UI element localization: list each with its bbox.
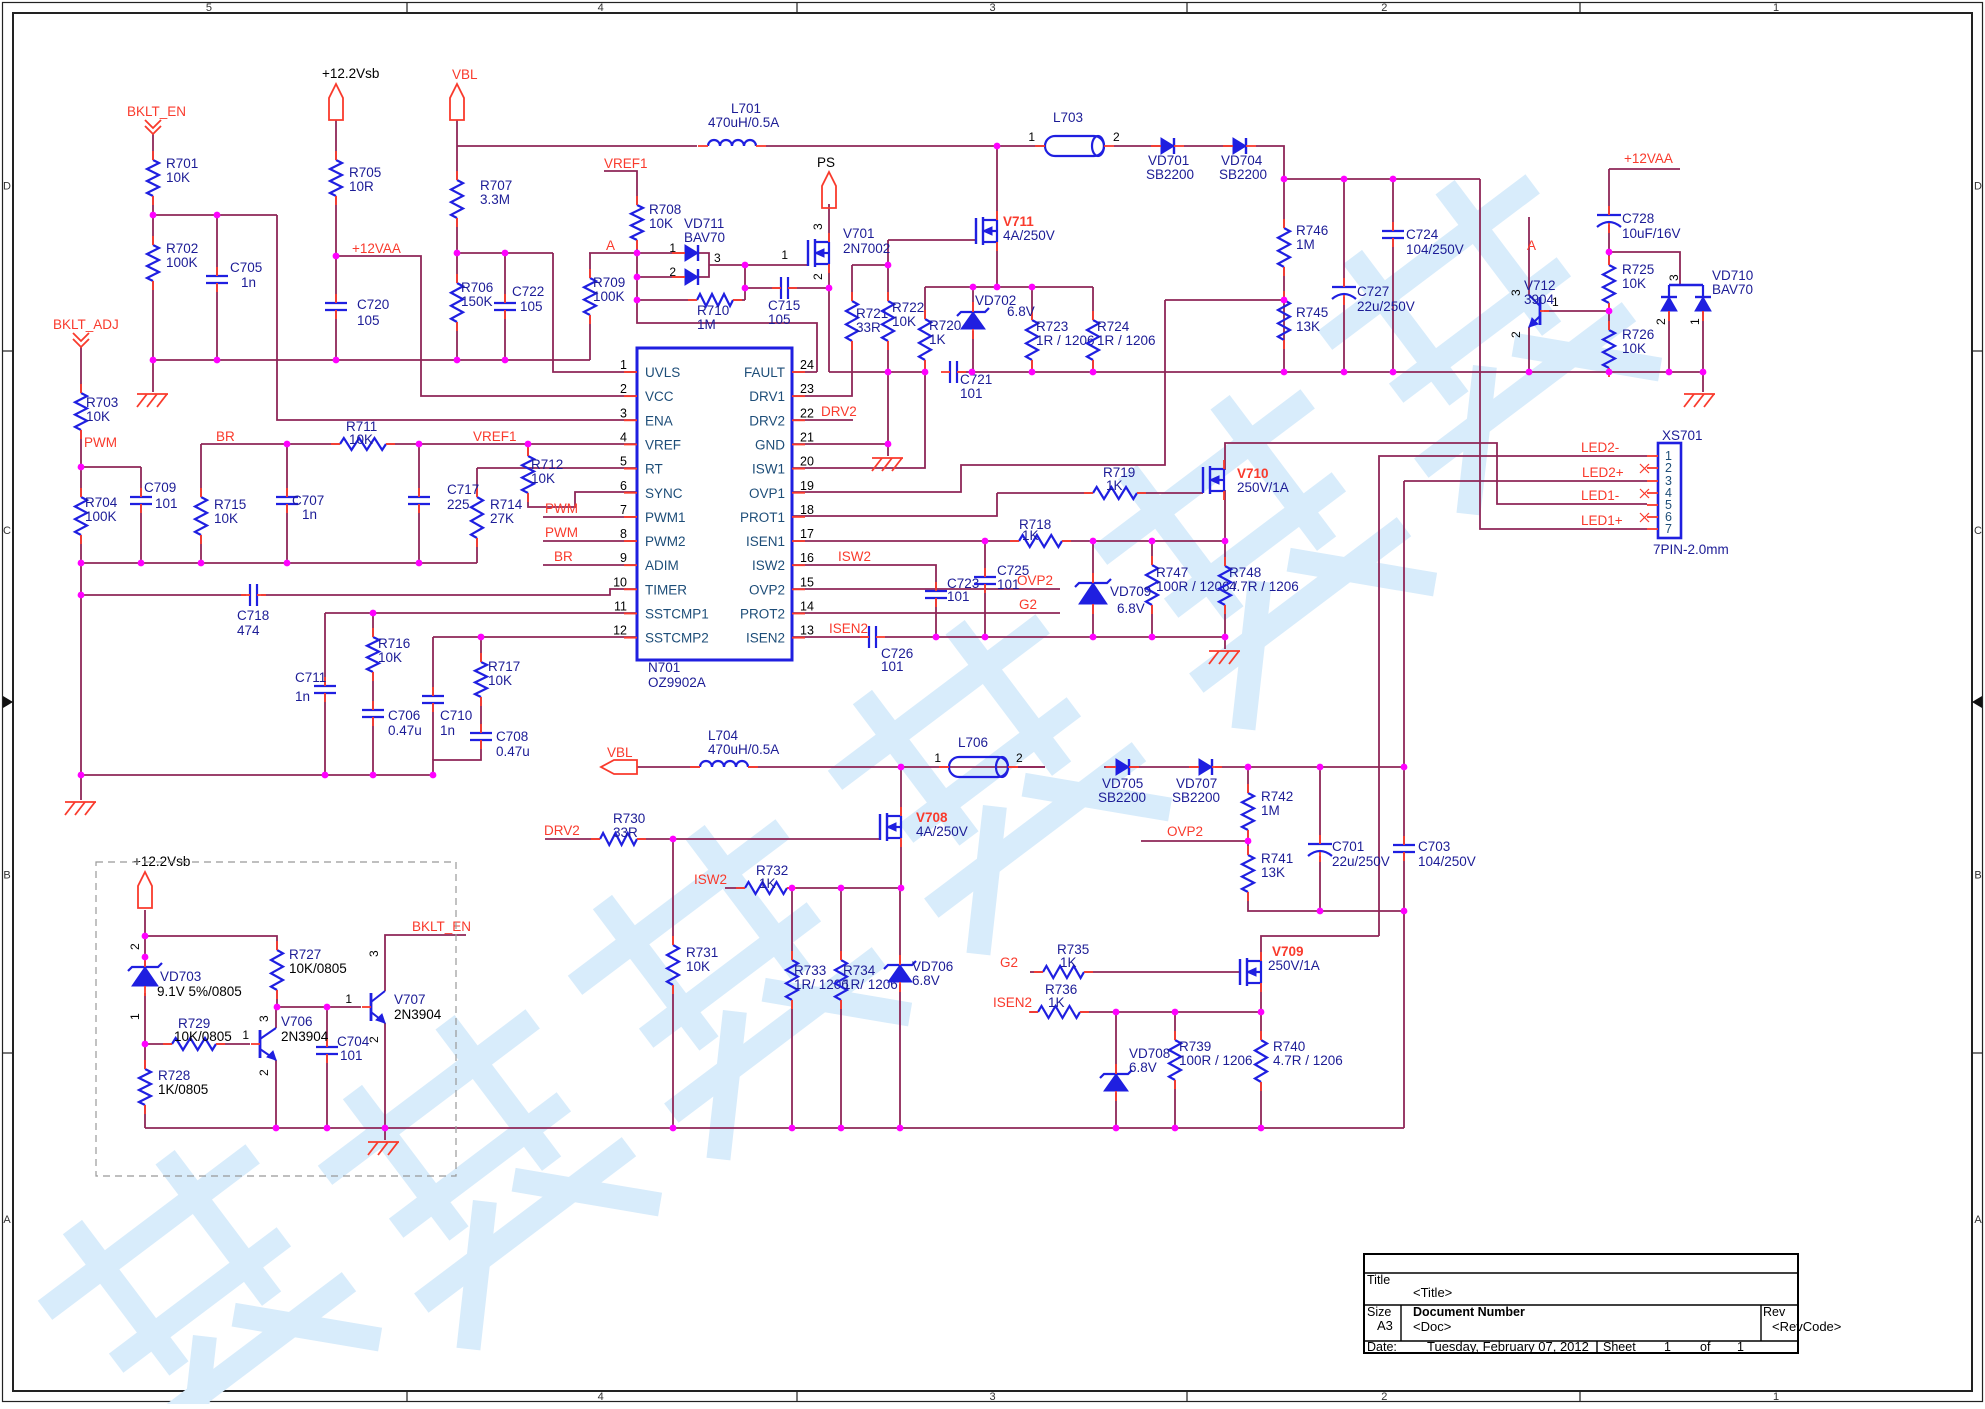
svg-text:C720: C720 xyxy=(357,297,389,312)
svg-text:R704: R704 xyxy=(85,495,118,510)
svg-text:DRV2: DRV2 xyxy=(749,413,785,428)
svg-text:V706: V706 xyxy=(281,1014,313,1029)
svg-text:3: 3 xyxy=(989,2,995,14)
svg-text:C703: C703 xyxy=(1418,839,1450,854)
svg-text:33R: 33R xyxy=(613,825,638,840)
svg-text:C711: C711 xyxy=(295,670,326,685)
svg-text:R720: R720 xyxy=(929,318,961,333)
svg-text:1K/0805: 1K/0805 xyxy=(158,1082,208,1097)
svg-text:PWM1: PWM1 xyxy=(645,510,686,525)
svg-text:0.47u: 0.47u xyxy=(388,723,422,738)
svg-text:3.3M: 3.3M xyxy=(480,192,510,207)
svg-text:ADIM: ADIM xyxy=(645,558,679,573)
svg-text:2: 2 xyxy=(669,265,676,279)
svg-text:9: 9 xyxy=(620,551,627,565)
svg-text:R714: R714 xyxy=(490,497,523,512)
svg-text:3: 3 xyxy=(257,1015,271,1022)
svg-text:10K: 10K xyxy=(649,216,673,231)
svg-text:<Doc>: <Doc> xyxy=(1413,1319,1451,1334)
svg-text:2: 2 xyxy=(1381,1391,1387,1403)
svg-text:1: 1 xyxy=(669,241,676,255)
svg-text:RT: RT xyxy=(645,462,663,477)
svg-text:V707: V707 xyxy=(394,992,426,1007)
svg-text:PS: PS xyxy=(817,155,835,170)
svg-text:100R / 1206: 100R / 1206 xyxy=(1179,1053,1253,1068)
svg-text:C728: C728 xyxy=(1622,211,1654,226)
svg-text:3904: 3904 xyxy=(1524,292,1555,307)
svg-text:22: 22 xyxy=(800,406,814,420)
svg-text:17: 17 xyxy=(800,527,814,541)
svg-text:VD704: VD704 xyxy=(1221,153,1263,168)
svg-text:4: 4 xyxy=(620,430,627,444)
svg-text:SB2200: SB2200 xyxy=(1172,790,1220,805)
svg-text:OZ9902A: OZ9902A xyxy=(648,675,706,690)
svg-text:+12.2Vsb: +12.2Vsb xyxy=(322,66,379,81)
svg-text:4.7R / 1206: 4.7R / 1206 xyxy=(1273,1053,1343,1068)
svg-text:10K: 10K xyxy=(378,650,402,665)
svg-text:6.8V: 6.8V xyxy=(1007,304,1035,319)
svg-text:BKLT_EN: BKLT_EN xyxy=(412,919,471,934)
svg-text:3: 3 xyxy=(1509,289,1523,296)
svg-text:SYNC: SYNC xyxy=(645,486,683,501)
svg-text:4A/250V: 4A/250V xyxy=(1003,228,1055,243)
svg-text:V710: V710 xyxy=(1237,466,1269,481)
svg-text:VD709: VD709 xyxy=(1110,584,1151,599)
svg-text:VBL: VBL xyxy=(452,67,478,82)
svg-text:100K: 100K xyxy=(593,289,625,304)
svg-text:R712: R712 xyxy=(531,457,563,472)
svg-text:R707: R707 xyxy=(480,178,512,193)
svg-text:G2: G2 xyxy=(1000,955,1018,970)
svg-text:C706: C706 xyxy=(388,708,420,723)
svg-text:10K/0805: 10K/0805 xyxy=(289,961,347,976)
svg-text:474: 474 xyxy=(237,623,260,638)
svg-text:470uH/0.5A: 470uH/0.5A xyxy=(708,115,779,130)
svg-text:R715: R715 xyxy=(214,497,246,512)
svg-text:1K: 1K xyxy=(1060,955,1077,970)
svg-text:6: 6 xyxy=(620,479,627,493)
svg-text:R746: R746 xyxy=(1296,223,1328,238)
svg-text:3: 3 xyxy=(367,950,381,957)
svg-text:R727: R727 xyxy=(289,947,321,962)
svg-text:R716: R716 xyxy=(378,636,410,651)
svg-text:C709: C709 xyxy=(144,480,176,495)
svg-text:12: 12 xyxy=(613,624,627,638)
svg-text:C717: C717 xyxy=(447,482,479,497)
svg-text:10K/0805: 10K/0805 xyxy=(174,1029,232,1044)
svg-text:225: 225 xyxy=(447,497,470,512)
svg-text:1n: 1n xyxy=(440,723,455,738)
svg-text:ISEN1: ISEN1 xyxy=(746,534,785,549)
svg-text:of: of xyxy=(1700,1340,1711,1354)
svg-text:13K: 13K xyxy=(1261,865,1285,880)
svg-text:LED1+: LED1+ xyxy=(1581,513,1623,528)
svg-text:R702: R702 xyxy=(166,241,198,256)
svg-text:6.8V: 6.8V xyxy=(1117,601,1145,616)
svg-text:ISEN2: ISEN2 xyxy=(829,621,868,636)
svg-text:15: 15 xyxy=(800,575,814,589)
svg-text:13K: 13K xyxy=(1296,319,1320,334)
svg-text:2N7002: 2N7002 xyxy=(843,241,890,256)
svg-text:ISW2: ISW2 xyxy=(838,549,871,564)
svg-text:LED2-: LED2- xyxy=(1581,440,1619,455)
svg-text:R717: R717 xyxy=(488,659,520,674)
svg-text:101: 101 xyxy=(947,589,970,604)
svg-text:SB2200: SB2200 xyxy=(1219,167,1267,182)
svg-text:7: 7 xyxy=(620,503,627,517)
svg-text:+12VAA: +12VAA xyxy=(352,241,401,256)
svg-text:R721: R721 xyxy=(856,306,888,321)
svg-text:470uH/0.5A: 470uH/0.5A xyxy=(708,742,779,757)
svg-text:C721: C721 xyxy=(960,372,992,387)
svg-text:104/250V: 104/250V xyxy=(1418,854,1476,869)
svg-text:<Title>: <Title> xyxy=(1413,1285,1452,1300)
svg-text:3: 3 xyxy=(714,251,721,265)
svg-text:1: 1 xyxy=(781,248,788,262)
svg-text:ISW1: ISW1 xyxy=(752,462,785,477)
svg-text:R724: R724 xyxy=(1097,319,1130,334)
svg-text:1K: 1K xyxy=(1022,528,1039,543)
svg-text:1: 1 xyxy=(1028,130,1035,144)
svg-text:R734: R734 xyxy=(843,963,876,978)
svg-text:C704: C704 xyxy=(337,1034,370,1049)
svg-text:10uF/16V: 10uF/16V xyxy=(1622,226,1681,241)
svg-text:VCC: VCC xyxy=(645,389,674,404)
svg-text:OVP2: OVP2 xyxy=(1167,824,1203,839)
svg-text:24: 24 xyxy=(800,358,814,372)
svg-text:PROT2: PROT2 xyxy=(740,607,785,622)
svg-text:R748: R748 xyxy=(1229,565,1261,580)
svg-text:1: 1 xyxy=(345,992,352,1006)
svg-text:ISW2: ISW2 xyxy=(694,872,727,887)
svg-text:R730: R730 xyxy=(613,811,645,826)
svg-text:A: A xyxy=(3,1214,11,1226)
svg-text:3: 3 xyxy=(1667,274,1681,281)
svg-text:PWM: PWM xyxy=(84,435,117,450)
svg-text:23: 23 xyxy=(800,382,814,396)
svg-text:R706: R706 xyxy=(461,280,493,295)
svg-text:10K: 10K xyxy=(349,432,373,447)
svg-text:SB2200: SB2200 xyxy=(1098,790,1146,805)
svg-text:Title: Title xyxy=(1367,1273,1390,1287)
svg-text:2: 2 xyxy=(1665,461,1672,475)
svg-text:C: C xyxy=(1974,525,1982,537)
svg-text:104/250V: 104/250V xyxy=(1406,242,1464,257)
svg-text:A3: A3 xyxy=(1377,1318,1393,1333)
svg-text:ISW2: ISW2 xyxy=(752,558,785,573)
svg-text:1: 1 xyxy=(1552,295,1559,309)
svg-text:GND: GND xyxy=(755,437,785,452)
svg-text:0.47u: 0.47u xyxy=(496,744,530,759)
svg-text:1: 1 xyxy=(1773,1391,1779,1403)
svg-text:2: 2 xyxy=(1016,751,1023,765)
svg-text:C701: C701 xyxy=(1332,839,1364,854)
svg-text:1M: 1M xyxy=(697,317,716,332)
svg-text:VD705: VD705 xyxy=(1102,776,1143,791)
svg-text:G2: G2 xyxy=(1019,597,1037,612)
svg-text:19: 19 xyxy=(800,479,814,493)
svg-text:R739: R739 xyxy=(1179,1039,1211,1054)
svg-text:D: D xyxy=(3,180,11,192)
svg-text:VREF: VREF xyxy=(645,437,681,452)
svg-text:1: 1 xyxy=(1688,318,1702,325)
svg-text:VD701: VD701 xyxy=(1148,153,1189,168)
svg-text:105: 105 xyxy=(768,312,791,327)
svg-text:3: 3 xyxy=(989,1391,995,1403)
svg-text:R708: R708 xyxy=(649,202,681,217)
svg-text:R741: R741 xyxy=(1261,851,1293,866)
svg-text:L704: L704 xyxy=(708,728,739,743)
svg-text:33R: 33R xyxy=(856,320,881,335)
svg-text:C724: C724 xyxy=(1406,227,1439,242)
svg-text:<RevCode>: <RevCode> xyxy=(1772,1319,1841,1334)
svg-text:10K: 10K xyxy=(1622,341,1646,356)
svg-text:L703: L703 xyxy=(1053,110,1083,125)
svg-text:1K: 1K xyxy=(759,876,776,891)
svg-text:SSTCMP2: SSTCMP2 xyxy=(645,631,709,646)
svg-text:1R / 1206: 1R / 1206 xyxy=(1036,333,1095,348)
svg-text:R726: R726 xyxy=(1622,327,1654,342)
svg-text:Size: Size xyxy=(1367,1305,1391,1319)
svg-text:1n: 1n xyxy=(295,689,310,704)
svg-text:250V/1A: 250V/1A xyxy=(1237,480,1289,495)
svg-text:101: 101 xyxy=(340,1048,363,1063)
svg-text:R725: R725 xyxy=(1622,262,1654,277)
svg-text:BKLT_EN: BKLT_EN xyxy=(127,104,186,119)
svg-text:10K: 10K xyxy=(214,511,238,526)
svg-text:C708: C708 xyxy=(496,729,528,744)
svg-text:250V/1A: 250V/1A xyxy=(1268,958,1320,973)
svg-text:14: 14 xyxy=(800,600,814,614)
svg-text:20: 20 xyxy=(800,455,814,469)
svg-text:FAULT: FAULT xyxy=(744,365,785,380)
svg-text:Date:: Date: xyxy=(1367,1340,1397,1354)
svg-text:R703: R703 xyxy=(86,395,118,410)
svg-text:SB2200: SB2200 xyxy=(1146,167,1194,182)
svg-text:R740: R740 xyxy=(1273,1039,1305,1054)
svg-text:XS701: XS701 xyxy=(1662,428,1703,443)
svg-text:R705: R705 xyxy=(349,165,381,180)
svg-text:LED1-: LED1- xyxy=(1581,488,1619,503)
svg-text:R723: R723 xyxy=(1036,319,1068,334)
svg-text:C727: C727 xyxy=(1357,284,1389,299)
svg-text:R742: R742 xyxy=(1261,789,1293,804)
svg-text:1n: 1n xyxy=(302,507,317,522)
svg-text:105: 105 xyxy=(520,299,543,314)
svg-text:18: 18 xyxy=(800,503,814,517)
svg-text:11: 11 xyxy=(614,600,627,614)
svg-text:Rev: Rev xyxy=(1763,1305,1786,1319)
svg-text:V711: V711 xyxy=(1003,214,1034,229)
svg-text:5: 5 xyxy=(620,455,627,469)
svg-text:1R / 1206: 1R / 1206 xyxy=(1097,333,1156,348)
svg-text:BR: BR xyxy=(216,429,235,444)
svg-text:R709: R709 xyxy=(593,275,625,290)
svg-text:B: B xyxy=(3,869,10,881)
svg-text:TIMER: TIMER xyxy=(645,582,687,597)
svg-text:VD703: VD703 xyxy=(160,969,201,984)
svg-text:10K: 10K xyxy=(1622,276,1646,291)
svg-text:ENA: ENA xyxy=(645,413,673,428)
svg-text:3: 3 xyxy=(620,406,627,420)
svg-text:VD708: VD708 xyxy=(1129,1046,1170,1061)
svg-text:UVLS: UVLS xyxy=(645,365,680,380)
svg-text:PWM: PWM xyxy=(545,501,578,516)
svg-text:150K: 150K xyxy=(461,294,493,309)
svg-text:10K: 10K xyxy=(531,471,555,486)
svg-text:2: 2 xyxy=(620,382,627,396)
svg-text:101: 101 xyxy=(960,386,983,401)
svg-text:V708: V708 xyxy=(916,810,948,825)
svg-text:100K: 100K xyxy=(85,509,117,524)
svg-text:4.7R / 1206: 4.7R / 1206 xyxy=(1229,579,1299,594)
svg-text:5: 5 xyxy=(206,2,212,14)
svg-text:A: A xyxy=(606,238,615,253)
svg-text:BAV70: BAV70 xyxy=(684,230,725,245)
svg-text:PROT1: PROT1 xyxy=(740,510,785,525)
svg-text:10K: 10K xyxy=(86,409,110,424)
svg-text:10K: 10K xyxy=(488,673,512,688)
svg-text:A: A xyxy=(1974,1214,1982,1226)
svg-text:DRV2: DRV2 xyxy=(544,823,580,838)
svg-text:10K: 10K xyxy=(686,959,710,974)
svg-text:10K: 10K xyxy=(892,314,916,329)
svg-text:1K: 1K xyxy=(1106,478,1123,493)
svg-text:1M: 1M xyxy=(1296,237,1315,252)
svg-text:3: 3 xyxy=(811,223,825,230)
svg-text:1: 1 xyxy=(128,1013,142,1020)
svg-text:OVP1: OVP1 xyxy=(749,486,785,501)
svg-text:VD707: VD707 xyxy=(1176,776,1217,791)
svg-text:100K: 100K xyxy=(166,255,198,270)
svg-text:OVP2: OVP2 xyxy=(1017,573,1053,588)
svg-text:1: 1 xyxy=(1737,1340,1744,1354)
svg-text:B: B xyxy=(1974,869,1981,881)
svg-text:VREF1: VREF1 xyxy=(604,156,648,171)
svg-text:R747: R747 xyxy=(1156,565,1188,580)
svg-text:101: 101 xyxy=(881,659,904,674)
svg-text:10: 10 xyxy=(613,575,627,589)
svg-text:C722: C722 xyxy=(512,284,544,299)
svg-text:2N3904: 2N3904 xyxy=(394,1007,442,1022)
svg-text:BAV70: BAV70 xyxy=(1712,282,1753,297)
svg-text:ISEN2: ISEN2 xyxy=(746,631,785,646)
svg-text:VD711: VD711 xyxy=(684,216,724,231)
svg-text:VD706: VD706 xyxy=(912,959,953,974)
svg-text:SSTCMP1: SSTCMP1 xyxy=(645,607,709,622)
svg-text:C718: C718 xyxy=(237,608,269,623)
svg-text:13: 13 xyxy=(800,624,814,638)
svg-text:7PIN-2.0mm: 7PIN-2.0mm xyxy=(1653,542,1729,557)
svg-text:105: 105 xyxy=(357,313,380,328)
svg-text:2: 2 xyxy=(1509,331,1523,338)
svg-text:DRV1: DRV1 xyxy=(749,389,785,404)
svg-text:1M: 1M xyxy=(1261,803,1280,818)
svg-text:1: 1 xyxy=(620,358,627,372)
svg-text:Document Number: Document Number xyxy=(1413,1305,1525,1319)
svg-text:N701: N701 xyxy=(648,660,680,675)
svg-text:Tuesday, February 07, 2012: Tuesday, February 07, 2012 xyxy=(1427,1339,1589,1354)
svg-text:BR: BR xyxy=(554,549,573,564)
svg-text:C710: C710 xyxy=(440,708,472,723)
svg-text:R728: R728 xyxy=(158,1068,190,1083)
svg-text:1K: 1K xyxy=(1048,995,1065,1010)
svg-text:A: A xyxy=(1527,238,1536,253)
svg-text:L706: L706 xyxy=(958,735,988,750)
svg-text:10K: 10K xyxy=(166,170,190,185)
svg-text:16: 16 xyxy=(800,551,814,565)
svg-text:7: 7 xyxy=(1665,522,1672,536)
svg-text:VD710: VD710 xyxy=(1712,268,1753,283)
svg-text:1: 1 xyxy=(242,1028,249,1042)
svg-text:R710: R710 xyxy=(697,303,729,318)
svg-text:OVP2: OVP2 xyxy=(749,582,785,597)
svg-text:2: 2 xyxy=(128,943,142,950)
svg-text:2: 2 xyxy=(1381,2,1387,14)
svg-text:LED2+: LED2+ xyxy=(1582,465,1624,480)
svg-text:D: D xyxy=(1974,180,1982,192)
svg-text:2: 2 xyxy=(1113,130,1120,144)
svg-text:27K: 27K xyxy=(490,511,514,526)
svg-text:2N3904: 2N3904 xyxy=(281,1029,329,1044)
svg-text:BKLT_ADJ: BKLT_ADJ xyxy=(53,317,119,332)
svg-text:V709: V709 xyxy=(1272,944,1304,959)
svg-text:101: 101 xyxy=(155,496,178,511)
svg-text:1n: 1n xyxy=(241,275,256,290)
svg-text:R701: R701 xyxy=(166,156,198,171)
svg-text:VBL: VBL xyxy=(607,745,633,760)
svg-text:ISEN2: ISEN2 xyxy=(993,995,1032,1010)
svg-text:6.8V: 6.8V xyxy=(912,973,940,988)
svg-text:2: 2 xyxy=(367,1036,381,1043)
svg-text:1K: 1K xyxy=(929,332,946,347)
svg-text:+12VAA: +12VAA xyxy=(1624,151,1673,166)
svg-text:DRV2: DRV2 xyxy=(821,404,857,419)
svg-text:9.1V 5%/0805: 9.1V 5%/0805 xyxy=(157,984,242,999)
svg-text:22u/250V: 22u/250V xyxy=(1357,299,1415,314)
svg-text:1: 1 xyxy=(1664,1340,1671,1354)
svg-text:R733: R733 xyxy=(794,963,826,978)
svg-text:C715: C715 xyxy=(768,298,800,313)
svg-text:2: 2 xyxy=(257,1069,271,1076)
svg-text:1: 1 xyxy=(934,751,941,765)
svg-text:C: C xyxy=(3,525,11,537)
svg-text:10R: 10R xyxy=(349,179,374,194)
svg-text:21: 21 xyxy=(800,430,814,444)
svg-text:22u/250V: 22u/250V xyxy=(1332,854,1390,869)
svg-text:VREF1: VREF1 xyxy=(473,429,517,444)
svg-text:8: 8 xyxy=(620,527,627,541)
svg-text:Sheet: Sheet xyxy=(1603,1340,1636,1354)
svg-text:PWM2: PWM2 xyxy=(645,534,686,549)
svg-text:4: 4 xyxy=(598,2,604,14)
svg-text:R731: R731 xyxy=(686,945,718,960)
svg-text:4A/250V: 4A/250V xyxy=(916,824,968,839)
svg-text:C707: C707 xyxy=(292,493,324,508)
svg-text:L701: L701 xyxy=(731,101,761,116)
svg-text:V701: V701 xyxy=(843,226,875,241)
svg-text:2: 2 xyxy=(811,273,825,280)
svg-text:R722: R722 xyxy=(892,300,924,315)
svg-text:6.8V: 6.8V xyxy=(1129,1060,1157,1075)
svg-text:R745: R745 xyxy=(1296,305,1328,320)
svg-text:2: 2 xyxy=(1654,318,1668,325)
svg-text:4: 4 xyxy=(598,1391,604,1403)
svg-text:1: 1 xyxy=(1773,2,1779,14)
svg-text:C705: C705 xyxy=(230,260,262,275)
svg-text:PWM: PWM xyxy=(545,525,578,540)
svg-text:V712: V712 xyxy=(1524,278,1556,293)
